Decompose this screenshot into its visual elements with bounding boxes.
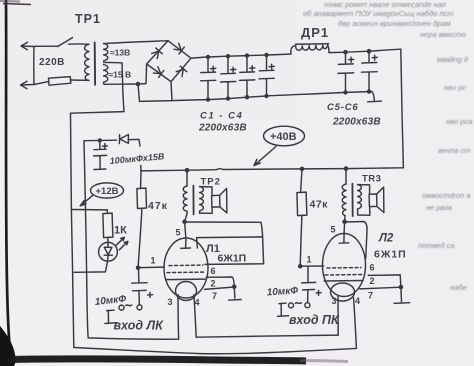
svg-text:имвостdrоп а: имвостdrоп а xyxy=(422,191,470,200)
svg-text:об апавармет ПОУ имаgоvСьщ наб: об апавармет ПОУ имаgоvСьщ набдо пcm xyxy=(303,9,454,18)
svg-text:6: 6 xyxy=(211,266,216,276)
wire inner bottom rail xyxy=(88,338,178,339)
diode VD3 (bottom-left edge) xyxy=(153,66,164,77)
resistor R1 47k (left) xyxy=(140,171,142,188)
capacitor C3 xyxy=(240,56,255,98)
node junction V2 pins ground xyxy=(399,285,404,290)
wire +40V rail left stub xyxy=(140,165,142,171)
svg-text:10мкФ: 10мкФ xyxy=(266,285,298,298)
wire outer bottom ground rail xyxy=(74,348,357,354)
wire top rail DR1 to right corner xyxy=(329,49,401,52)
node junction secondary bottom xyxy=(136,82,141,87)
wire mains left vertical xyxy=(33,47,35,85)
wire V2 pin7 to ground column xyxy=(360,287,401,289)
node junction tube V2 anode xyxy=(342,220,347,225)
diode VD5 xyxy=(119,135,128,144)
capacitor C7 10uF (left input) xyxy=(132,268,148,305)
node junction 100uF top xyxy=(98,138,102,142)
diode VD1 (top-left edge) xyxy=(151,48,162,59)
svg-text:C1 - C4: C1 - C4 xyxy=(200,111,243,122)
capacitor C1 xyxy=(201,57,216,100)
wire LED cathode to left rail xyxy=(74,261,108,272)
svg-text:2: 2 xyxy=(370,276,375,286)
svg-text:тнмс ромеп нвале отмеςапdе нап: тнмс ромеп нвале отмеςапdе нап xyxy=(324,0,446,9)
wire V2 pin 4 down to outer rail xyxy=(354,298,357,349)
svg-text:нера вместо: нера вместо xyxy=(420,30,466,39)
mains input arrow top xyxy=(21,42,34,49)
wire V1 pin 3 down xyxy=(177,295,180,339)
svg-text:Л2: Л2 xyxy=(378,233,394,245)
wire TP3 primary bottom to anode node xyxy=(344,216,346,222)
capacitor C8 10uF (right input) xyxy=(302,267,316,303)
svg-text:5: 5 xyxy=(331,225,336,235)
svg-text:TR3: TR3 xyxy=(362,174,381,185)
node junction TP2 primary top xyxy=(185,168,190,173)
+40V callout ellipse xyxy=(80,126,304,206)
tube V1 cathode line xyxy=(166,278,205,281)
svg-text:ДР1: ДР1 xyxy=(301,25,329,40)
svg-text:+40В: +40В xyxy=(270,131,297,143)
svg-text:набe: набe xyxy=(450,283,467,292)
svg-text:47к: 47к xyxy=(148,200,168,212)
wire secondary middle tap down xyxy=(104,62,124,111)
tube V2 bottom circle xyxy=(331,283,355,301)
svg-text:не рвза: не рвза xyxy=(426,203,452,212)
svg-text:1К: 1К xyxy=(114,225,127,237)
transformer TP2 secondary xyxy=(200,187,204,214)
svg-text:нвυ рс: нвυ рс xyxy=(444,83,466,92)
transformer TP3 secondary xyxy=(358,185,362,215)
node junction V1 pins ground xyxy=(232,285,237,290)
tube V1 bottom circle xyxy=(176,282,197,301)
transformer TP3 primary xyxy=(345,169,347,185)
+12V callout arrow xyxy=(80,196,92,206)
capacitor C5 xyxy=(338,52,354,92)
capacitor C6 xyxy=(362,51,378,91)
wire junction down to cap ground rail xyxy=(138,84,140,101)
capacitor C2 xyxy=(221,56,236,98)
capacitor 100uF x15V xyxy=(94,140,107,169)
wire +40V rail xyxy=(141,168,403,171)
wire V1 pin 4 down xyxy=(194,295,196,338)
wire TP3 secondary to speaker BA2 xyxy=(358,185,370,216)
wire V2 grid pin 1 xyxy=(300,265,323,267)
transformer TP1 core xyxy=(94,43,96,85)
wire top rail bridge to DR1 xyxy=(191,54,291,58)
transformer TP1 secondary winding 15V xyxy=(103,65,107,85)
wire V1 pin6 to ground column xyxy=(206,277,234,287)
scan edge: bottom dark band xyxy=(8,359,306,361)
svg-text:≈13В: ≈13В xyxy=(110,48,130,58)
node junction tube V1 anode xyxy=(182,219,187,224)
svg-text:1: 1 xyxy=(307,255,312,265)
diode VD4 (bottom-right edge) xyxy=(176,66,187,77)
wire secondary top to bridge xyxy=(104,41,168,44)
bleed-through faint text from reverse side xyxy=(303,0,472,292)
svg-text:двр асмеин вринамхсlоvен драм: двр асмеин вринамхсlоvен драм xyxy=(338,19,451,28)
svg-text:6Ж1П: 6Ж1П xyxy=(374,249,407,261)
transformer TP3 core xyxy=(351,184,353,216)
svg-text:венпа сm: венпа сm xyxy=(438,146,470,155)
resistor R3 47k (right) xyxy=(301,169,302,192)
wire +12V to R2 1k xyxy=(71,209,107,211)
tube V1 grid (dashed) xyxy=(169,264,203,267)
wire ground rail end hook xyxy=(368,92,382,102)
label box V1 xyxy=(197,237,264,265)
wire TP2 secondary to speaker BA1 xyxy=(200,187,213,214)
wire V1 grid pin 1 xyxy=(138,266,164,269)
wire diode row (12V rectifier) xyxy=(84,139,140,146)
ground V2 (bar) xyxy=(394,287,410,303)
choke DR1 xyxy=(296,43,329,46)
svg-text:7: 7 xyxy=(212,291,217,301)
svg-text:мваling д: мваling д xyxy=(437,55,468,64)
svg-text:+12В: +12В xyxy=(96,186,119,197)
+40V callout arrow xyxy=(254,147,276,166)
wire V2 pin2 to ground column xyxy=(368,275,401,287)
svg-text:47к: 47к xyxy=(310,199,329,211)
svg-text:5: 5 xyxy=(176,228,181,238)
wire TP2 primary bottom to anode node xyxy=(185,214,187,222)
svg-text:вход ЛК: вход ЛК xyxy=(114,319,165,333)
svg-text:4: 4 xyxy=(355,296,360,306)
svg-text:6: 6 xyxy=(370,263,375,273)
wire anode link to label box (V1 screen) xyxy=(185,222,263,237)
wire anode node to pin 5 tube V2 xyxy=(339,222,349,243)
transformer TP2 primary xyxy=(186,170,188,186)
node junction TP3 primary top xyxy=(344,166,349,171)
wire junction up to bridge left corner xyxy=(138,64,147,84)
wire filter cap ground rail xyxy=(140,92,372,102)
wire V2 pin 3 down to inner rail xyxy=(337,296,339,336)
LED HL1 xyxy=(99,242,118,261)
ground chassis bracket (input PK) xyxy=(278,303,289,316)
svg-text:6Ж1П: 6Ж1П xyxy=(218,253,247,265)
mains input arrow bottom xyxy=(21,81,35,88)
transformer TP1 primary winding xyxy=(85,44,89,80)
capacitor C4 xyxy=(259,55,274,96)
wire secondary bottom to junction xyxy=(105,83,139,85)
wire bridge bottom corner down xyxy=(171,82,172,101)
svg-text:C5-C6: C5-C6 xyxy=(327,102,358,113)
svg-text:220В: 220В xyxy=(39,57,65,68)
wire inner-left vertical (input box) xyxy=(84,141,88,338)
svg-text:3: 3 xyxy=(168,297,173,307)
+12V callout ellipse xyxy=(91,183,124,198)
wire left rail +12V down xyxy=(71,113,74,347)
ground chassis bracket (input LK) xyxy=(105,310,117,323)
tube V1 envelope xyxy=(164,238,208,298)
svg-text:поmвед ca: поmвед ca xyxy=(418,241,455,250)
svg-text:1: 1 xyxy=(151,256,156,266)
svg-text:ТР2: ТР2 xyxy=(201,177,221,188)
resistor R2 1K xyxy=(106,210,108,213)
connector input LK xyxy=(137,305,142,310)
LED arrows xyxy=(116,237,125,245)
ground V1 (bar) xyxy=(229,287,242,300)
svg-text:ТР1: ТР1 xyxy=(75,12,101,26)
tube V2 grid (dashed) xyxy=(327,267,361,270)
svg-text:4: 4 xyxy=(195,298,200,308)
transformer TP2 core xyxy=(192,186,194,215)
tube V2 cathode line xyxy=(324,280,363,283)
svg-text:≈15 В: ≈15 В xyxy=(109,70,132,80)
speaker BA1 xyxy=(212,195,220,207)
tube V2 envelope xyxy=(323,234,366,297)
wire V2 anode link to screen pin 6 xyxy=(345,222,367,259)
wire V1 pin7 to ground column xyxy=(205,287,235,289)
svg-text:2200х63В: 2200х63В xyxy=(332,117,381,128)
scan edge: left black line xyxy=(6,0,10,350)
connector input PK xyxy=(305,303,310,308)
diode VD2 (top-right edge) xyxy=(174,43,185,54)
wire anode node to pin 5 tube V1 xyxy=(181,222,191,249)
svg-text:7: 7 xyxy=(368,291,373,301)
scan edge: top-left tick xyxy=(3,4,31,5)
svg-text:2: 2 xyxy=(211,279,216,289)
fuse FU1 xyxy=(34,82,49,85)
svg-text:3: 3 xyxy=(332,296,337,306)
bridge rectifier VD1-VD4 diamond xyxy=(147,41,191,82)
speaker BA2 xyxy=(369,194,377,207)
wire mains top + switch SA1 xyxy=(34,45,58,47)
scan edge: bottom-left dark blob xyxy=(0,326,16,366)
svg-text:2200х63В: 2200х63В xyxy=(198,123,247,134)
svg-text:вход ПК: вход ПК xyxy=(289,313,340,327)
wire middle tap across to left rail xyxy=(71,112,125,114)
node junction V2 grid xyxy=(298,264,303,269)
node junction 47k right top xyxy=(300,167,305,172)
wire right side vertical down to +40V rail xyxy=(401,49,404,168)
transformer TP1 secondary winding 13V xyxy=(104,44,108,61)
svg-text:нвe рса: нвe рса xyxy=(446,117,472,126)
